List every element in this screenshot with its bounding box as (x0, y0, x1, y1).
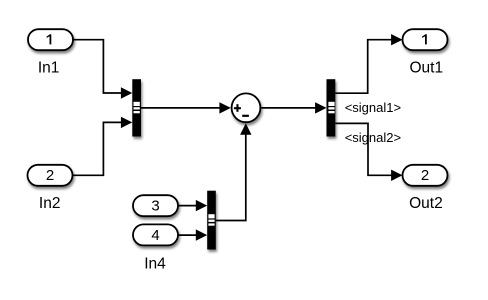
svg-text:Out2: Out2 (409, 195, 443, 212)
svg-text:In2: In2 (39, 195, 61, 212)
svg-text:3: 3 (151, 198, 159, 215)
svg-text:In4: In4 (144, 255, 166, 272)
svg-text:<signal1>: <signal1> (345, 100, 401, 115)
svg-text:2: 2 (421, 167, 429, 184)
svg-text:<signal2>: <signal2> (345, 130, 401, 145)
svg-text:4: 4 (151, 227, 159, 244)
svg-text:2: 2 (46, 167, 54, 184)
svg-text:In1: In1 (38, 60, 60, 77)
svg-text:Out1: Out1 (409, 60, 443, 77)
